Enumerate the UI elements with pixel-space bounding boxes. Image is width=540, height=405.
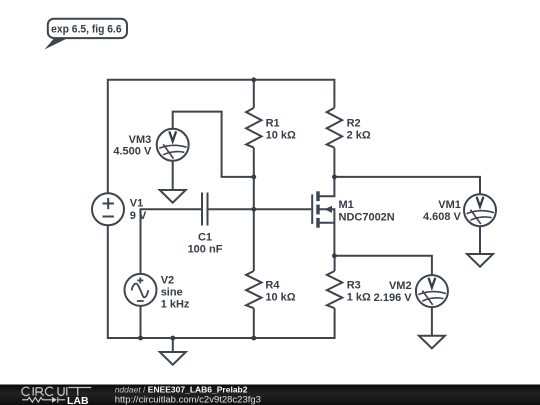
svg-text:VM1: VM1: [438, 199, 461, 211]
svg-text:2.196 V: 2.196 V: [374, 292, 413, 304]
svg-text:VM2: VM2: [389, 280, 412, 292]
wire R1 top lead: [253, 80, 255, 108]
wire VM1 ground stem: [479, 226, 481, 254]
annotation bubble "exp 6.5, fig 6.6": [45, 36, 73, 50]
resistor R4: [246, 271, 261, 308]
voltage source V1: [92, 193, 124, 225]
svg-text:VM3: VM3: [129, 134, 152, 146]
svg-text:1 kΩ: 1 kΩ: [347, 292, 371, 304]
svg-text:nddaet / ENEE307_LAB6_Prelab2: nddaet / ENEE307_LAB6_Prelab2: [115, 384, 248, 394]
wire drain node to VM1: [334, 177, 480, 194]
svg-text:NDC7002N: NDC7002N: [339, 212, 395, 224]
svg-text:10 kΩ: 10 kΩ: [265, 292, 295, 304]
voltmeter VM1: [464, 194, 496, 226]
voltmeter VM2: [416, 275, 448, 307]
svg-text:V2: V2: [161, 275, 174, 287]
svg-text:10 kΩ: 10 kΩ: [266, 130, 296, 142]
ground (bottom rail): [160, 352, 186, 365]
wire source node to VM2: [334, 256, 432, 275]
svg-text:sine: sine: [161, 287, 183, 299]
wire V2 bottom lead: [140, 306, 142, 338]
svg-text:C1: C1: [198, 231, 212, 243]
svg-text:1 kHz: 1 kHz: [161, 299, 190, 311]
wire R3 top lead: [334, 256, 336, 271]
ground (below VM3): [160, 190, 186, 203]
svg-text:R4: R4: [265, 280, 280, 292]
node R4 bottom on rail: [251, 336, 256, 341]
resistor R1: [246, 108, 261, 148]
svg-text:exp 6.5, fig 6.6: exp 6.5, fig 6.6: [51, 23, 122, 35]
node drain: [332, 175, 337, 180]
capacitor C1: [202, 193, 208, 226]
wire gate-bias vertical (R1 bottom to R4 top): [253, 148, 255, 271]
svg-text:100 nF: 100 nF: [188, 243, 223, 255]
junction node dots: [138, 77, 337, 340]
voltmeter VM3: [157, 129, 189, 161]
svg-text:4.500 V: 4.500 V: [113, 146, 152, 158]
svg-text:4.608 V: 4.608 V: [423, 211, 462, 223]
node source: [332, 253, 337, 258]
CircuitLab logo: CIRCUIT (vector letters): [22, 387, 91, 396]
svg-text:R2: R2: [347, 118, 361, 130]
svg-text:9 V: 9 V: [130, 210, 147, 222]
svg-text:LAB: LAB: [67, 395, 89, 405]
node ground tap on rail: [170, 336, 175, 341]
svg-text:2 kΩ: 2 kΩ: [347, 130, 371, 142]
wire VM3 ground stem: [172, 161, 174, 190]
wire R4 bottom lead: [253, 308, 255, 338]
source V2 (sine): [125, 274, 157, 306]
wire C1 right plate to M1 gate: [208, 208, 312, 210]
ground (below VM1): [467, 254, 493, 267]
svg-text:http://circuitlab.com/c2v9t28c: http://circuitlab.com/c2v9t28c23fg3: [115, 394, 261, 405]
CircuitLab logo: squiggle and diode: [22, 397, 65, 403]
wire bottom ground stem: [172, 338, 174, 352]
wire V2 top to C1 left plate: [141, 209, 203, 274]
footer bar: [0, 385, 540, 405]
node C1/gate crossing: [251, 207, 256, 212]
svg-text:R3: R3: [347, 280, 361, 292]
MOSFET M1: [312, 177, 334, 256]
node gate bias (R1 bottom): [251, 175, 256, 180]
resistor R2: [327, 108, 342, 148]
svg-text:R1: R1: [266, 118, 280, 130]
wire bottom rail with V1 bottom lead and R3 bottom lead: [108, 225, 335, 338]
node R1 top: [251, 77, 256, 82]
svg-text:M1: M1: [339, 199, 354, 211]
resistor R3: [327, 271, 342, 308]
wire VM2 ground stem: [431, 307, 433, 336]
wire R2 bottom lead to drain node: [333, 148, 335, 177]
svg-text:V1: V1: [130, 198, 143, 210]
ground (below VM2): [419, 336, 445, 349]
wire VM3 sense loop: [173, 112, 254, 177]
node V2 bottom on rail: [138, 336, 143, 341]
wire top rail with V1 top lead and R2 top lead: [108, 80, 335, 194]
